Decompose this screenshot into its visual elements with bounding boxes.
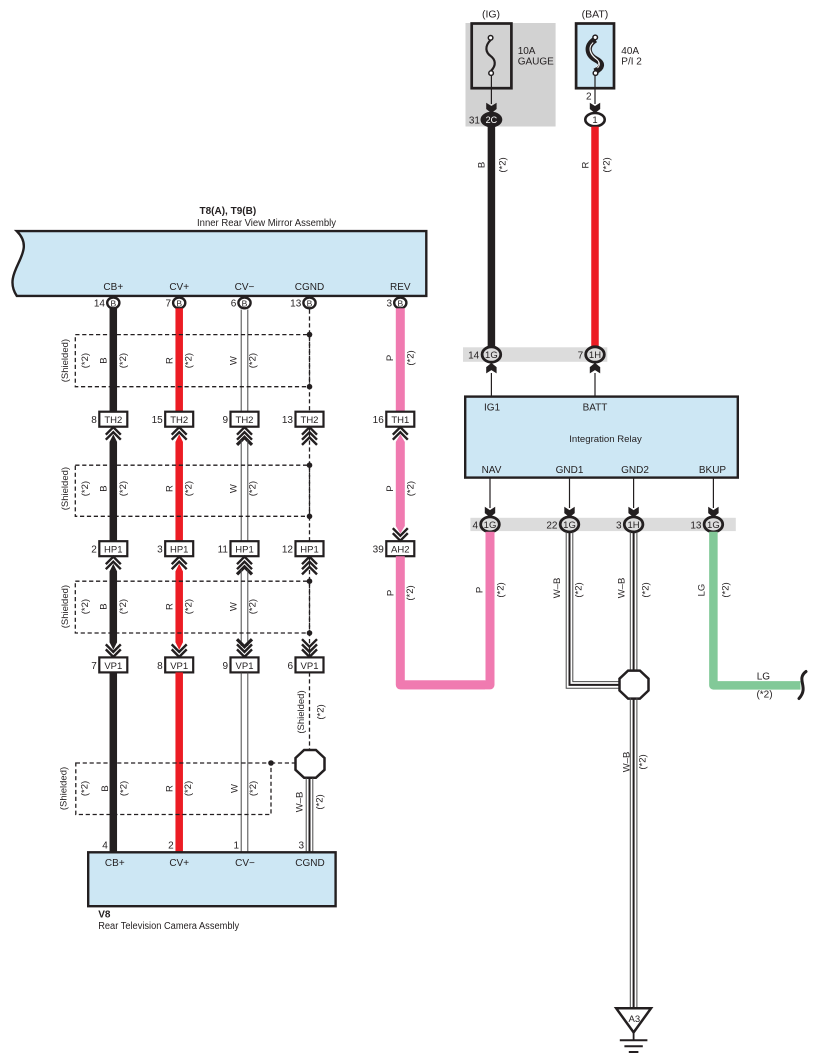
svg-text:14: 14 xyxy=(94,299,106,310)
svg-text:(Shielded): (Shielded) xyxy=(296,690,307,733)
shield box 4 xyxy=(76,763,271,815)
svg-text:1G: 1G xyxy=(485,350,498,361)
svg-text:(*2): (*2) xyxy=(756,690,772,701)
shield drain seg1 (dashed) xyxy=(309,310,311,413)
wire B seg2 xyxy=(110,434,118,542)
svg-text:2: 2 xyxy=(91,545,97,556)
svg-text:TH2: TH2 xyxy=(104,415,122,426)
shield link to octagon xyxy=(271,762,295,764)
svg-text:GND1: GND1 xyxy=(556,465,584,476)
shield junction J1 (octagon) xyxy=(620,671,649,699)
svg-text:GND2: GND2 xyxy=(621,465,649,476)
connector HP1 pin 11 xyxy=(231,541,259,556)
svg-text:T8(A), T9(B): T8(A), T9(B) xyxy=(200,206,257,217)
svg-text:8: 8 xyxy=(157,661,163,672)
fuse block panel (IG) xyxy=(466,23,556,127)
wire P seg2 xyxy=(396,434,405,533)
pin 6 connector B xyxy=(238,298,250,309)
svg-text:1: 1 xyxy=(592,115,597,126)
svg-text:(*2): (*2) xyxy=(118,781,129,796)
wire fuse F2 to connector 1 xyxy=(594,75,596,104)
svg-text:HP1: HP1 xyxy=(300,545,318,556)
svg-text:VP1: VP1 xyxy=(236,661,254,672)
connector HP1 pin 2 xyxy=(99,541,127,556)
svg-text:8: 8 xyxy=(91,415,97,426)
svg-text:3: 3 xyxy=(386,299,392,310)
svg-text:VP1: VP1 xyxy=(170,661,188,672)
svg-text:1H: 1H xyxy=(589,350,601,361)
svg-text:VP1: VP1 xyxy=(104,661,122,672)
connector TH1 pin 16 xyxy=(386,412,414,427)
svg-text:(Shielded): (Shielded) xyxy=(58,767,69,810)
fuse F2 40A P/I 2 (BAT) xyxy=(576,24,614,89)
wire W seg2 xyxy=(240,440,242,542)
svg-text:CV+: CV+ xyxy=(169,858,189,869)
svg-text:22: 22 xyxy=(546,521,558,532)
svg-text:(IG): (IG) xyxy=(482,9,500,21)
svg-text:(*2): (*2) xyxy=(183,599,194,614)
connector 14 1G xyxy=(482,347,501,362)
svg-text:(Shielded): (Shielded) xyxy=(60,339,71,382)
svg-text:B: B xyxy=(176,298,182,308)
wire P seg1 xyxy=(396,308,405,413)
svg-text:3: 3 xyxy=(157,545,163,556)
connector HP1 pin 3 xyxy=(165,541,193,556)
junction strip J/C xyxy=(463,347,607,362)
relay U1 Integration Relay xyxy=(465,397,738,478)
svg-text:HP1: HP1 xyxy=(170,545,188,556)
wire B seg1 xyxy=(110,308,118,413)
svg-text:BKUP: BKUP xyxy=(699,465,727,476)
svg-text:P: P xyxy=(385,485,396,491)
svg-text:(*2): (*2) xyxy=(574,582,585,597)
svg-text:CV−: CV− xyxy=(235,858,255,869)
svg-text:REV: REV xyxy=(390,282,411,293)
svg-text:(*2): (*2) xyxy=(406,350,417,365)
svg-text:(*2): (*2) xyxy=(498,157,509,172)
svg-text:IG1: IG1 xyxy=(484,403,501,414)
svg-text:12: 12 xyxy=(282,545,294,556)
svg-text:TH2: TH2 xyxy=(301,415,319,426)
svg-text:B: B xyxy=(99,357,110,363)
svg-text:TH1: TH1 xyxy=(391,415,409,426)
pin 7 connector B xyxy=(173,298,185,309)
svg-text:P: P xyxy=(385,355,396,361)
connector 7 1H xyxy=(586,347,605,362)
svg-text:P: P xyxy=(475,587,486,593)
wire IG1 to strip xyxy=(490,373,492,397)
svg-text:TH2: TH2 xyxy=(236,415,254,426)
connector VP1 pin 8 xyxy=(172,649,187,657)
wire R seg2 xyxy=(175,434,183,542)
fuse F1 10A GAUGE (IG) xyxy=(472,24,512,89)
svg-text:(*2): (*2) xyxy=(720,582,731,597)
svg-text:CB+: CB+ xyxy=(105,858,125,869)
svg-text:(*2): (*2) xyxy=(602,157,613,172)
svg-text:2: 2 xyxy=(168,841,174,852)
svg-text:W–B: W–B xyxy=(621,752,632,773)
svg-text:R: R xyxy=(164,357,175,364)
svg-text:R: R xyxy=(165,603,176,610)
svg-text:HP1: HP1 xyxy=(235,545,253,556)
svg-text:V8: V8 xyxy=(98,910,111,921)
svg-text:1G: 1G xyxy=(563,520,576,531)
svg-text:(*2): (*2) xyxy=(248,481,259,496)
svg-text:B: B xyxy=(476,162,487,168)
svg-text:W–B: W–B xyxy=(295,792,306,813)
wire P seg3 (from AH2 down, turn right, meet NAV wire) xyxy=(400,556,485,685)
connector 13 1G xyxy=(704,517,723,532)
svg-text:B: B xyxy=(100,785,111,791)
connector 1 xyxy=(585,113,604,126)
svg-text:(*2): (*2) xyxy=(406,481,417,496)
shield drain VP1-6 to octagon (dashed) xyxy=(309,672,311,750)
connector 2C xyxy=(482,113,501,126)
svg-text:B: B xyxy=(242,298,248,308)
svg-text:4: 4 xyxy=(472,521,478,532)
svg-text:B: B xyxy=(99,485,110,491)
svg-text:BATT: BATT xyxy=(583,403,608,414)
svg-text:(*2): (*2) xyxy=(118,481,129,496)
connector 4 1G xyxy=(481,517,500,532)
svg-text:R: R xyxy=(164,785,175,792)
svg-text:(*2): (*2) xyxy=(248,781,259,796)
svg-text:14: 14 xyxy=(468,351,480,362)
svg-text:3: 3 xyxy=(298,841,304,852)
shield drain seg2 xyxy=(309,427,311,542)
svg-text:(*2): (*2) xyxy=(183,353,194,368)
svg-text:(*2): (*2) xyxy=(496,582,507,597)
svg-text:Integration Relay: Integration Relay xyxy=(569,434,642,445)
svg-text:Inner Rear View Mirror Assembl: Inner Rear View Mirror Assembly xyxy=(197,218,336,229)
svg-text:7: 7 xyxy=(578,351,584,362)
svg-text:(*2): (*2) xyxy=(183,481,194,496)
connector HP1 pin 12 xyxy=(296,541,324,556)
shield box 2 xyxy=(75,465,309,516)
wire B seg3 xyxy=(110,564,118,650)
connector VP1 pin 9 xyxy=(237,649,252,657)
svg-text:GAUGE: GAUGE xyxy=(518,56,554,67)
svg-text:1G: 1G xyxy=(484,520,497,531)
svg-text:6: 6 xyxy=(231,299,237,310)
svg-text:3: 3 xyxy=(616,521,622,532)
wire W seg1 xyxy=(240,310,242,413)
connector VP1 pin 6 xyxy=(302,649,317,657)
svg-text:15: 15 xyxy=(152,415,164,426)
wire fuse F1 to connector 2C xyxy=(490,75,492,104)
svg-text:(*2): (*2) xyxy=(315,704,326,719)
svg-text:W: W xyxy=(228,356,239,365)
svg-text:W: W xyxy=(228,484,239,493)
svg-text:W: W xyxy=(229,784,240,793)
svg-text:9: 9 xyxy=(222,415,228,426)
wire R seg4 xyxy=(175,672,183,853)
pin 14 connector B xyxy=(107,298,119,309)
svg-text:(*2): (*2) xyxy=(80,599,91,614)
svg-text:P: P xyxy=(385,590,396,596)
svg-text:4: 4 xyxy=(102,841,108,852)
svg-text:7: 7 xyxy=(165,299,171,310)
connector TH2 pin 13 xyxy=(296,412,324,427)
svg-text:NAV: NAV xyxy=(482,465,502,476)
svg-text:(Shielded): (Shielded) xyxy=(60,467,71,510)
pin 3 connector B xyxy=(394,298,406,309)
connector TH2 pin 9 xyxy=(231,412,259,427)
svg-text:1: 1 xyxy=(233,841,239,852)
svg-text:W–B: W–B xyxy=(552,578,563,599)
svg-text:(BAT): (BAT) xyxy=(582,9,609,21)
svg-text:39: 39 xyxy=(373,545,385,556)
ground A3 xyxy=(616,1008,651,1052)
wire R (*2) from 1 to 1H xyxy=(591,127,599,348)
wire W-B (*2) octagon to ground A3 xyxy=(629,698,631,1009)
wire R seg3 xyxy=(175,564,183,650)
svg-text:B: B xyxy=(397,298,403,308)
wire P (*2) NAV: 4 1G down, left to REV column xyxy=(400,532,490,685)
svg-text:TH2: TH2 xyxy=(170,415,188,426)
wire BKUP out xyxy=(712,478,714,508)
connector AH2 pin 39 xyxy=(386,541,414,556)
svg-text:AH2: AH2 xyxy=(391,545,409,556)
svg-text:R: R xyxy=(164,485,175,492)
shield box 3 xyxy=(75,581,309,633)
wire W-B octagon to camera CGND xyxy=(305,778,307,854)
shield junction J2 (octagon) xyxy=(296,750,325,778)
wire W-B (*2) GND2 down to shield junction xyxy=(629,532,631,672)
svg-text:(*2): (*2) xyxy=(638,754,649,769)
svg-text:CGND: CGND xyxy=(295,858,324,869)
continuation squiggle xyxy=(799,672,806,699)
wire LG (*2) BKUP: down then right xyxy=(713,532,800,686)
svg-text:A3: A3 xyxy=(628,1014,640,1025)
connector 22 1G xyxy=(560,517,579,532)
connector VP1 pin 7 xyxy=(106,649,121,657)
svg-text:CV−: CV− xyxy=(235,282,255,293)
svg-text:1H: 1H xyxy=(628,520,640,531)
shield drain seg3 xyxy=(309,556,311,657)
svg-text:(*2): (*2) xyxy=(118,353,129,368)
svg-text:13: 13 xyxy=(282,415,294,426)
svg-text:(*2): (*2) xyxy=(118,599,129,614)
wire W seg3 xyxy=(240,570,242,647)
svg-text:13: 13 xyxy=(290,299,302,310)
svg-text:6: 6 xyxy=(287,661,293,672)
svg-text:(*2): (*2) xyxy=(405,585,416,600)
connector TH2 pin 15 xyxy=(165,412,193,427)
wire B (*2) from 2C to 1G xyxy=(488,127,496,348)
svg-text:B: B xyxy=(99,603,110,609)
wire NAV out xyxy=(489,478,491,508)
svg-text:W: W xyxy=(229,602,240,611)
component V8 Rear Television Camera Assembly xyxy=(88,852,335,906)
svg-text:VP1: VP1 xyxy=(301,661,319,672)
svg-text:(*2): (*2) xyxy=(79,781,90,796)
junction strip 2 xyxy=(470,518,735,531)
shield box 1 xyxy=(75,335,309,387)
svg-text:Rear Television Camera Assembl: Rear Television Camera Assembly xyxy=(98,921,239,932)
svg-text:R: R xyxy=(581,161,592,168)
connector 3 1H xyxy=(624,517,643,532)
svg-text:LG: LG xyxy=(757,672,771,683)
svg-text:(Shielded): (Shielded) xyxy=(60,585,71,628)
svg-text:(*2): (*2) xyxy=(248,353,259,368)
connector TH2 pin 8 xyxy=(99,412,127,427)
svg-text:2: 2 xyxy=(586,92,592,103)
svg-text:7: 7 xyxy=(91,661,97,672)
svg-text:CV+: CV+ xyxy=(169,282,189,293)
svg-text:W–B: W–B xyxy=(617,578,628,599)
svg-text:CB+: CB+ xyxy=(103,282,123,293)
svg-text:(*2): (*2) xyxy=(80,353,91,368)
wire BATT to strip xyxy=(594,373,596,397)
svg-text:13: 13 xyxy=(690,521,702,532)
svg-text:2C: 2C xyxy=(486,115,498,125)
svg-text:(*2): (*2) xyxy=(80,481,91,496)
svg-text:11: 11 xyxy=(218,545,229,556)
svg-text:(*2): (*2) xyxy=(641,582,652,597)
svg-text:B: B xyxy=(307,298,313,308)
wire W-B (*2) GND1: down then right to shield junction xyxy=(566,532,621,689)
svg-text:B: B xyxy=(110,298,116,308)
wire GND2 out xyxy=(633,478,635,508)
wire W seg4 xyxy=(240,672,242,853)
pin 13 connector B xyxy=(303,298,315,309)
svg-text:1G: 1G xyxy=(707,520,720,531)
svg-text:(*2): (*2) xyxy=(314,794,325,809)
svg-text:9: 9 xyxy=(222,661,228,672)
svg-text:31: 31 xyxy=(469,116,481,127)
svg-text:P/I 2: P/I 2 xyxy=(621,56,642,67)
wire B seg4 xyxy=(110,672,118,853)
wire GND1 out xyxy=(569,478,571,508)
svg-text:(*2): (*2) xyxy=(248,599,259,614)
svg-text:CGND: CGND xyxy=(295,282,324,293)
svg-text:LG: LG xyxy=(697,584,708,597)
wire R seg1 xyxy=(175,308,183,413)
svg-text:16: 16 xyxy=(373,415,385,426)
svg-text:HP1: HP1 xyxy=(104,545,122,556)
svg-text:(*2): (*2) xyxy=(183,781,194,796)
